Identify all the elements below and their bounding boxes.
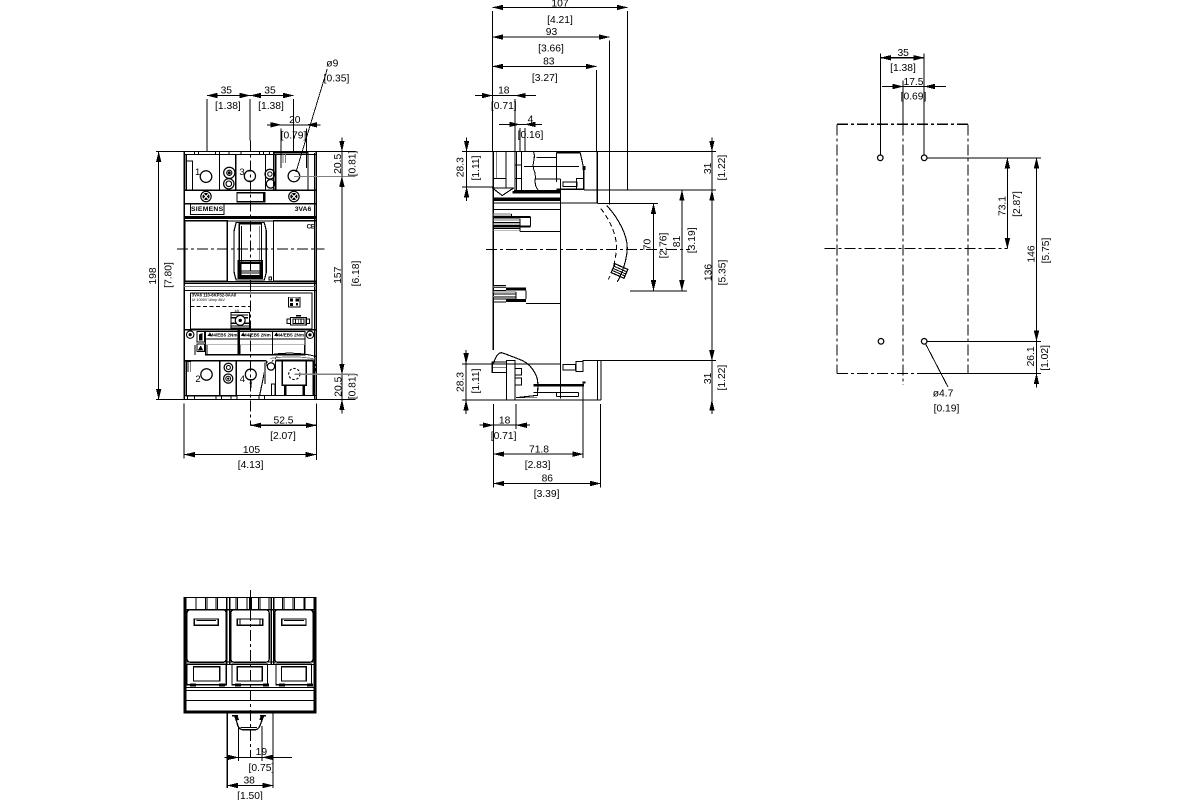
svg-text:28.3: 28.3: [456, 157, 467, 177]
svg-text:[4.21]: [4.21]: [547, 15, 573, 26]
extension line circle right: [294, 175, 356, 177]
bottom feet: [185, 395, 316, 397]
panel area top line: [184, 220, 316, 222]
svg-text:[1.11]: [1.11]: [471, 368, 482, 393]
dimension 86: [494, 483, 601, 485]
trip strip screw right: [306, 331, 313, 338]
dimension 20: [271, 124, 317, 126]
svg-text:3: 3: [239, 167, 244, 178]
dimension 20.5 top: [341, 137, 343, 190]
svg-text:[1.38]: [1.38]: [258, 101, 284, 112]
divider2 lower screw: [266, 180, 275, 189]
mounting hole top left: [878, 155, 884, 161]
hole leader lines top: [879, 54, 881, 155]
terminal 1 hole: [200, 171, 212, 183]
svg-text:86: 86: [542, 474, 554, 485]
label area box: [190, 293, 312, 329]
svg-text:[5.75]: [5.75]: [1041, 237, 1052, 263]
svg-text:31: 31: [703, 162, 714, 174]
front view body right edge: [315, 151, 317, 399]
svg-text:M4/EB5 2Nm: M4/EB5 2Nm: [276, 332, 304, 337]
extension lines 18 bottom: [493, 404, 495, 488]
extension lines for 35: [206, 99, 208, 151]
strip center window: [237, 193, 265, 202]
upper lamination stack: [493, 213, 511, 215]
dimension 28.3 bottom: [465, 350, 467, 414]
dimension 26.1: [1036, 328, 1038, 388]
side terminal trapezoid: [556, 151, 580, 154]
bottom divider 4-6 screw: [267, 363, 274, 370]
svg-text:CE: CE: [307, 224, 316, 231]
pole 2 slot: [237, 619, 262, 625]
dimension 146: [1036, 158, 1038, 341]
bottom right block legs: [284, 385, 286, 395]
plate horizontal centerline: [825, 248, 1008, 250]
terminal 2 hole: [201, 369, 212, 380]
front view vertical centerline: [249, 141, 251, 426]
svg-text:28.3: 28.3: [455, 372, 466, 392]
svg-text:157: 157: [333, 266, 344, 283]
pole 3 slot: [282, 619, 306, 625]
dimension 107: [493, 6, 628, 8]
hole callout leader: [296, 69, 327, 172]
svg-text:[0.81]: [0.81]: [348, 150, 359, 176]
mounting plate outline bottom: [837, 373, 968, 375]
extension lines for 20: [280, 128, 282, 152]
top edge notches: [193, 151, 195, 154]
bottom terminal zone top line: [185, 360, 267, 362]
rear bracket top: [596, 151, 598, 202]
svg-text:20: 20: [289, 115, 301, 126]
svg-text:[2.07]: [2.07]: [270, 431, 296, 442]
side view centerline: [486, 248, 690, 250]
dimension 4: [499, 123, 542, 125]
test plug icon: [291, 318, 307, 325]
dimension 17.5: [882, 86, 946, 88]
panel bottom lines: [184, 280, 316, 282]
svg-text:38: 38: [243, 776, 255, 787]
svg-text:[0.19]: [0.19]: [934, 403, 960, 414]
svg-text:31: 31: [703, 372, 714, 384]
mounting plate outline left: [836, 124, 838, 373]
svg-text:[2.87]: [2.87]: [1012, 191, 1023, 217]
rating plate dashed line: [190, 305, 250, 307]
warning label 2: [241, 332, 246, 336]
right front panel: [274, 221, 317, 282]
svg-text:kA: kA: [235, 308, 240, 313]
extension lines 105: [183, 403, 185, 458]
svg-text:[3.19]: [3.19]: [687, 227, 698, 253]
bottom divider screws: [224, 363, 233, 372]
bottom clamp lines: [534, 391, 579, 393]
qr code block: [289, 297, 300, 307]
svg-text:[0.16]: [0.16]: [518, 130, 544, 141]
din rail slot: [235, 716, 264, 730]
bottom divider 2-4: [220, 361, 237, 396]
side view front strips: [514, 151, 516, 190]
svg-text:20.5: 20.5: [333, 154, 344, 174]
svg-text:81: 81: [672, 236, 683, 248]
handle window: [239, 224, 261, 277]
rating dial icon: [231, 312, 250, 328]
rotary cable arc dashed: [601, 209, 617, 280]
dimension 38: [227, 785, 273, 787]
handle recess outline: [234, 223, 266, 281]
right block edge clips: [314, 364, 316, 366]
panel base lines: [184, 661, 316, 663]
terminal base thick lines: [514, 189, 561, 191]
mounting hole bottom right: [921, 339, 927, 345]
cavity4 grey wall: [264, 363, 266, 385]
svg-text:[3.39]: [3.39]: [534, 489, 560, 500]
dimension 71.8: [494, 453, 584, 455]
terminal cavity divider 1-3: [220, 155, 236, 191]
svg-text:3VA6: 3VA6: [295, 206, 312, 213]
terminal cover box 2: [232, 664, 268, 684]
svg-text:[1.38]: [1.38]: [890, 63, 916, 74]
base plate lines: [184, 687, 316, 689]
svg-text:[0.69]: [0.69]: [901, 92, 927, 103]
bottom shroud rects: [507, 361, 515, 400]
extension line 136 bottom: [583, 360, 716, 362]
right terminal hole: [288, 170, 300, 182]
trapezoid tab: [582, 166, 585, 170]
dimension 136: [711, 190, 713, 361]
bottom view centerline: [249, 590, 251, 757]
dimension 81: [681, 190, 683, 291]
svg-text:M4/EB5 2Nm: M4/EB5 2Nm: [243, 332, 271, 337]
extension line 28.3 bottom: [462, 363, 493, 365]
svg-text:18: 18: [499, 416, 511, 427]
dimension 198: [158, 151, 160, 399]
rear lower details: [576, 362, 583, 372]
svg-text:70: 70: [643, 239, 654, 251]
screw strip lines: [184, 189, 316, 191]
extension lines 19: [237, 726, 239, 761]
trip label cells: [206, 332, 305, 355]
dimension 83: [493, 65, 597, 67]
trip strip top line: [184, 329, 316, 331]
bottom view pole dividers: [226, 598, 228, 665]
svg-text:107: 107: [551, 0, 568, 9]
warning label 1: [207, 332, 212, 336]
svg-text:1: 1: [195, 167, 200, 178]
side view inner horizontals: [537, 157, 558, 159]
small square right of handle: [269, 277, 271, 280]
hole 4.7 leader: [926, 344, 948, 387]
svg-text:[1.22]: [1.22]: [717, 155, 728, 181]
cover screw right: [289, 191, 299, 201]
terminal cavity 3 outline: [236, 155, 266, 191]
extension lines 4: [519, 128, 521, 151]
extension lines 70: [598, 203, 658, 205]
side view break line: [533, 152, 538, 191]
bottom right terminal block: [276, 359, 314, 361]
svg-text:[1.22]: [1.22]: [717, 365, 728, 391]
dimension 157: [341, 176, 343, 374]
svg-text:198: 198: [148, 267, 159, 284]
svg-text:[3.27]: [3.27]: [532, 73, 558, 84]
extension line circle right bottom: [294, 373, 355, 375]
cable block: [611, 264, 628, 278]
svg-text:35: 35: [897, 48, 909, 59]
svg-text:4: 4: [240, 374, 245, 385]
svg-text:[0.79]: [0.79]: [281, 131, 307, 142]
svg-text:[0.71]: [0.71]: [491, 431, 517, 442]
dimension 20.5 bottom: [341, 360, 343, 413]
svg-text:93: 93: [546, 27, 558, 38]
svg-text:19: 19: [256, 747, 268, 758]
siemens logo box: [191, 204, 224, 215]
bottom divider 4-6 bar: [271, 384, 274, 396]
trip icon box triangle: [197, 344, 205, 352]
rotary cable arc solid: [607, 206, 627, 282]
dimension 70: [653, 204, 655, 291]
label area top line: [184, 290, 316, 292]
trip strip screw left: [187, 331, 194, 338]
terminal 3 hole: [244, 170, 255, 181]
bottom clamp thick bar: [534, 384, 584, 386]
extension line 86 right: [600, 404, 602, 488]
warning label 3: [274, 332, 279, 336]
svg-text:[2.76]: [2.76]: [658, 232, 669, 258]
svg-text:18: 18: [498, 86, 510, 97]
dimension 18 top: [475, 95, 536, 97]
side view left edge lower: [492, 302, 494, 350]
mounting plate outline top: [837, 123, 968, 125]
lower lamination stack: [493, 285, 506, 287]
cover feet: [190, 684, 196, 687]
svg-text:20.5: 20.5: [333, 376, 344, 396]
svg-text:[1.38]: [1.38]: [215, 101, 241, 112]
svg-text:2: 2: [195, 374, 200, 385]
svg-text:SIEMENS: SIEMENS: [191, 206, 224, 213]
terminal cover box 3: [276, 664, 312, 684]
svg-text:52.5: 52.5: [273, 415, 293, 426]
terminal cover top curve: [270, 353, 316, 356]
extension line 26.1: [927, 373, 1041, 375]
terminal cover box 1: [187, 664, 226, 684]
bottom shroud bump: [494, 353, 538, 398]
trapezoid inner rect: [577, 178, 584, 189]
svg-text:[0.81]: [0.81]: [348, 373, 359, 399]
siemens band lines: [184, 216, 316, 218]
side view top edge: [462, 150, 716, 152]
svg-text:[6.18]: [6.18]: [351, 260, 362, 286]
svg-text:[1.11]: [1.11]: [471, 155, 482, 180]
din clip verticals: [597, 361, 599, 400]
pole 2 panel: [231, 610, 269, 662]
dimension 35 right: [250, 95, 294, 97]
svg-text:71.8: 71.8: [529, 444, 549, 455]
din tab sides: [226, 713, 228, 788]
side view top-left block: [493, 151, 506, 178]
svg-text:83: 83: [543, 56, 555, 67]
svg-text:35: 35: [221, 85, 233, 96]
bottom view outer rect: [184, 598, 316, 713]
pole 1 slot: [194, 619, 218, 625]
dimension 31 bottom: [711, 347, 713, 414]
svg-text:M4/EB5 2Nm: M4/EB5 2Nm: [210, 332, 238, 337]
bottom view comb base: [184, 609, 316, 611]
terminal 4 hole: [245, 369, 256, 380]
bottom thick band: [184, 710, 316, 712]
svg-text:[5.35]: [5.35]: [718, 259, 729, 285]
svg-text:136: 136: [704, 264, 715, 281]
svg-text:Ui 1000V Uimp 8kV: Ui 1000V Uimp 8kV: [192, 298, 226, 302]
svg-text:[0.75]: [0.75]: [249, 763, 275, 774]
dimension 28.3 top: [466, 137, 468, 201]
dimension 35 plate: [880, 57, 924, 59]
svg-text:4: 4: [528, 115, 534, 126]
divider1 lower screw: [224, 179, 234, 189]
svg-text:[3.66]: [3.66]: [538, 44, 564, 55]
terminal 4 pointer: [249, 380, 252, 383]
mounting hole top right: [921, 155, 927, 161]
dimension 105: [184, 454, 316, 456]
svg-text:17.5: 17.5: [903, 77, 923, 88]
pole 3 panel: [275, 610, 313, 662]
front view body bottom edge: [156, 399, 356, 401]
svg-text:[1.02]: [1.02]: [1040, 345, 1051, 371]
mid body right edge: [560, 179, 562, 398]
svg-text:26.1: 26.1: [1026, 346, 1037, 366]
svg-text:146: 146: [1026, 245, 1037, 262]
extension lines top dims: [492, 11, 494, 151]
extension lines 52.5: [315, 403, 317, 460]
front view body top edge: [156, 150, 356, 152]
bottom cavity 4 outline: [235, 361, 237, 396]
dimension 52.5: [251, 424, 317, 426]
svg-text:105: 105: [243, 445, 260, 456]
cover screw left: [201, 191, 211, 201]
bottom shroud horizontal: [493, 363, 561, 365]
side view bottom edge: [462, 399, 601, 401]
dimension 35 left: [207, 95, 250, 97]
dimension 19: [228, 756, 292, 758]
dimension 31 top: [711, 137, 713, 204]
bottom cavity 2 outline: [186, 361, 220, 396]
svg-text:35: 35: [264, 85, 276, 96]
side view v-notch: [492, 188, 514, 196]
left front panel: [185, 221, 228, 282]
right terminal block outline: [274, 153, 308, 190]
mounting hole bottom left: [878, 339, 884, 345]
hole extension right bottom: [927, 340, 1041, 342]
divider2 upper screw: [265, 169, 275, 179]
extension line 71.8 right: [582, 384, 584, 459]
svg-text:ø4.7: ø4.7: [933, 388, 954, 399]
terminal cavity divider 3-5: [265, 155, 275, 191]
dimension 18 bottom: [482, 424, 527, 426]
svg-text:[7.80]: [7.80]: [163, 262, 174, 288]
pole 1 panel: [187, 610, 226, 662]
svg-text:[1.50]: [1.50]: [237, 791, 263, 800]
handle grip: [239, 261, 263, 264]
mounting plate outline right: [967, 124, 969, 373]
svg-text:3VA6 110-6KP32-0AA0: 3VA6 110-6KP32-0AA0: [192, 292, 237, 297]
side view left edge: [492, 151, 494, 349]
extension line 18 top: [514, 99, 516, 151]
bottom view comb teeth: [195, 598, 197, 610]
trip icon box bell: [197, 332, 205, 343]
terminal cover edge slant: [260, 362, 267, 396]
extension line 28.3 top: [462, 186, 494, 188]
svg-text:[2.83]: [2.83]: [525, 460, 551, 471]
dimension 93: [493, 36, 610, 38]
svg-text:[4.13]: [4.13]: [238, 460, 264, 471]
front view body left edge: [183, 151, 185, 399]
trip strip bottom row dividers: [194, 345, 196, 355]
hole extension right top: [927, 157, 1041, 159]
extension line 31 top: [584, 189, 716, 191]
plate vertical centerline: [902, 81, 904, 125]
bottom right terminal hole: [289, 368, 300, 379]
svg-text:[0.71]: [0.71]: [491, 101, 517, 112]
terminal cavity 1 outline: [186, 155, 219, 191]
svg-text:[0.35]: [0.35]: [324, 73, 350, 84]
front view horizontal centerline: [177, 248, 325, 250]
svg-text:ø9: ø9: [326, 58, 338, 69]
terminal cover swing arc dashed: [272, 354, 282, 362]
svg-text:73.1: 73.1: [997, 196, 1008, 216]
dimension 73.1: [1006, 158, 1008, 249]
terminal strip rect: [563, 182, 577, 187]
divider1 upper screw: [224, 167, 235, 178]
